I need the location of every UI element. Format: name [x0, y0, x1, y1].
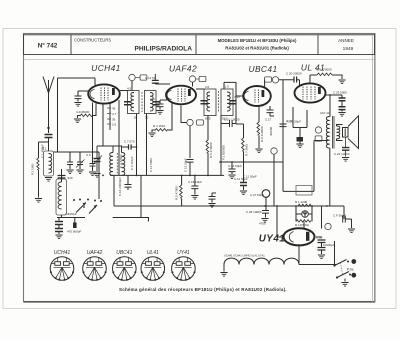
barretter lamp [302, 211, 309, 218]
svg-text:C.7 570: C.7 570 [124, 140, 135, 144]
tag box right of UBC41 label [265, 77, 272, 82]
OT primary coil [326, 117, 329, 149]
capacitor C7 padder [129, 144, 132, 149]
wire C29C30 joins [321, 243, 323, 255]
node C28 bus [264, 205, 266, 207]
switch arm 1 [76, 203, 86, 213]
svg-text:R.5 47000: R.5 47000 [175, 186, 179, 200]
trimmer cap T1 [67, 162, 73, 165]
svg-text:C.11 50pF: C.11 50pF [243, 175, 257, 179]
svg-text:UL41: UL41 [147, 250, 159, 256]
svg-text:1949: 1949 [343, 46, 354, 52]
svg-text:UCH41: UCH41 [91, 63, 120, 73]
ground T3 [89, 172, 96, 176]
wire UAF42 top stub [192, 82, 194, 86]
wire below C1 [48, 138, 50, 152]
ground T1 [66, 170, 73, 174]
ground C23 [338, 113, 345, 117]
capacitor C29 [318, 248, 326, 251]
svg-text:C.5: C.5 [86, 153, 91, 157]
MF1 primary coil [131, 93, 134, 111]
node MF1 bottom bus [136, 175, 138, 177]
wire C15 down [189, 162, 191, 175]
capacitor C2 top of L2 [58, 176, 66, 179]
coil L5 oscillator [110, 153, 113, 176]
svg-text:C.F 50pF: C.F 50pF [333, 214, 346, 218]
node R11 left [295, 205, 297, 207]
node UY41 plate bus [276, 205, 278, 207]
wire tag link [181, 118, 187, 123]
resistor R12 [296, 220, 311, 222]
node antenna junction [47, 127, 49, 129]
heater chain humps [224, 258, 299, 264]
base diagram UCH41 [50, 257, 74, 281]
wire UCH41 pin g down [109, 104, 111, 131]
node C18 top [194, 175, 196, 177]
tag circle AV [315, 127, 321, 133]
svg-text:C.19 50μF: C.19 50μF [287, 120, 301, 124]
switch arm upper [335, 260, 347, 266]
svg-text:58: 58 [134, 116, 138, 120]
wire R7 stubs [243, 124, 245, 183]
wire caps join [58, 225, 60, 235]
wire pot drop [220, 162, 222, 175]
tag circle below UAF42 [187, 119, 193, 125]
wire switch tap vertical [334, 241, 336, 266]
wire R5 stubs [181, 175, 183, 206]
svg-text:R.7 2MΩ: R.7 2MΩ [245, 143, 249, 156]
capacitor C30 [318, 240, 326, 243]
svg-text:A10 4Ω: A10 4Ω [320, 111, 331, 115]
MF1 secondary coil [150, 93, 153, 111]
coil L6 oscillator tickler [122, 153, 125, 176]
ground C11 [240, 191, 247, 195]
barretter filament [303, 211, 307, 217]
wire C28 stubs [265, 197, 268, 217]
wire speaker links [337, 125, 343, 141]
wire switch to bus [98, 152, 100, 199]
svg-text:R.4 1MΩ: R.4 1MΩ [153, 124, 166, 128]
svg-text:4.7: 4.7 [112, 112, 117, 116]
coil L2 oscillator [58, 182, 61, 209]
svg-text:UAF42: UAF42 [169, 64, 197, 74]
tube UCH41 [88, 84, 120, 103]
OT core lines [332, 116, 334, 149]
wire C11 stubs [243, 186, 245, 191]
tube UY41 [284, 228, 315, 245]
svg-text:C.16 20000pF: C.16 20000pF [118, 177, 122, 196]
svg-text:C.17: C.17 [265, 118, 272, 122]
card right border dark [374, 34, 376, 302]
svg-text:940: 940 [68, 176, 73, 180]
capacitor C28 [262, 211, 269, 214]
wire C14 stubs [231, 162, 233, 174]
capacitor C10 [230, 120, 233, 127]
wire L6 top stub [122, 147, 129, 153]
node R11 right [311, 205, 313, 207]
svg-text:R.8 410000: R.8 410000 [260, 126, 264, 142]
svg-text:N° 742: N° 742 [38, 42, 58, 50]
wire y162 link [219, 161, 283, 163]
tag circle right of UBC41 label [272, 77, 278, 83]
svg-text:3.6: 3.6 [205, 85, 210, 89]
wire UY41 right side [316, 236, 322, 238]
wire R6 down [207, 153, 209, 175]
svg-text:10000μF: 10000μF [323, 243, 335, 247]
MF2 anode feed wire [196, 88, 204, 90]
capacitor C24 [342, 148, 349, 151]
wire feedback loop [283, 141, 328, 192]
wire heater to UY41 [298, 246, 300, 265]
ground below C4 [55, 235, 62, 239]
tag box above UAF42 [199, 76, 206, 81]
ground heater [220, 273, 227, 277]
resistor R4 AGC [155, 129, 168, 132]
ground C28 [261, 219, 268, 223]
node osc grid [102, 175, 104, 177]
capacitor C23 lower [339, 107, 346, 110]
wire bus right end down [321, 206, 323, 229]
wire anode feed to OT [329, 95, 331, 117]
resistor R1 4.4/45000 [80, 114, 93, 117]
MF2 secondary box [221, 89, 233, 116]
svg-text:1.9: 1.9 [225, 85, 230, 89]
wire R4 left ground stub [152, 130, 155, 132]
svg-text:C.14 50pF: C.14 50pF [228, 164, 242, 168]
wire k-pin jog [113, 146, 122, 153]
svg-text:4700: 4700 [259, 222, 266, 226]
wire C26 stubs [212, 193, 216, 203]
capacitor C21 coupling [280, 124, 287, 127]
osc core dashes [116, 153, 118, 175]
capacitor C5 grid [75, 96, 82, 99]
wire T3 [92, 152, 94, 171]
tag circle K5 [129, 74, 135, 80]
capacitor C3 stack upper [55, 222, 63, 225]
wire C23 links [326, 95, 343, 112]
MF2 secondary coil [227, 92, 230, 111]
tag link above UAF42 [196, 78, 199, 80]
node R5 top [181, 175, 183, 177]
wire UCH41 pin k down [102, 104, 104, 147]
svg-text:UAF42: UAF42 [87, 250, 103, 256]
MF2 core dashes [218, 91, 220, 112]
MF2 primary coil [207, 92, 210, 111]
tube UBC41 [243, 86, 271, 106]
MF2 primary box [204, 89, 216, 116]
capacitor C8 MF1 left [124, 102, 131, 105]
node C15 bottom [189, 175, 191, 177]
wire R1 left to ground [78, 116, 81, 119]
switch arrow head 1 [83, 203, 86, 206]
pin voltage ticks [107, 108, 111, 124]
wire UL41 top [310, 75, 317, 83]
svg-text:Schéma général des récepteurs: Schéma général des récepteurs BF181U (Ph… [119, 287, 287, 292]
wire bus to CF [330, 206, 344, 219]
wire UAF42 anode down [180, 106, 182, 118]
wire UL41 cathode stubs [293, 107, 307, 137]
ground R9 [338, 80, 345, 84]
capacitor CF [343, 216, 346, 223]
speaker voice coil bar [344, 129, 346, 137]
base diagram UAF42 [83, 257, 107, 281]
svg-text:S.1: S.1 [42, 147, 47, 151]
tag circle 150 [271, 148, 277, 154]
node OT top [329, 94, 331, 96]
base diagram UL41 [141, 257, 165, 281]
svg-text:45: 45 [112, 107, 116, 111]
wire UY41 cathode up [303, 222, 305, 229]
svg-text:C.20 20000: C.20 20000 [286, 72, 302, 76]
wire UBC41 grid left [236, 96, 244, 124]
wire L-seg bottom left [113, 218, 149, 222]
wire UAF42 grid top [155, 74, 170, 84]
switch arrow head 2 [94, 205, 97, 208]
MF1 core dashes [141, 92, 143, 112]
wire C6 down [96, 162, 98, 173]
wire lower switch gnd stub [344, 279, 346, 282]
resistor R11 [298, 204, 311, 206]
svg-text:C.28 10000: C.28 10000 [246, 210, 262, 214]
coil L1 antenna [49, 154, 52, 173]
resistor R8 cathode [257, 122, 260, 135]
MF1 secondary box [145, 91, 157, 114]
wire CF links [345, 219, 351, 228]
svg-text:400/80: 400/80 [269, 126, 273, 136]
coil L2 box [56, 179, 67, 215]
wire x141 drop [140, 175, 142, 217]
capacitor C11 below bus [240, 183, 247, 186]
capacitor C17 [267, 110, 274, 113]
OT secondary coil [337, 126, 340, 139]
wire C16 stubs [127, 175, 129, 190]
ground below L1 [45, 178, 52, 182]
wire C7 out [131, 146, 136, 148]
coil L1 box [44, 151, 54, 176]
wire bus y206 left drop [113, 175, 115, 206]
capacitor C16 [125, 185, 132, 188]
svg-text:4.4/45000: 4.4/45000 [76, 110, 90, 114]
capacitor C15 [187, 160, 194, 163]
wire C22 links [279, 80, 300, 86]
wire R8 stubs [258, 106, 260, 148]
svg-text:4.5: 4.5 [127, 87, 132, 91]
svg-text:UCH41: UCH41 [54, 250, 71, 256]
tag circle above UAF42 [189, 76, 195, 82]
svg-text:C.9: C.9 [150, 97, 155, 101]
wire MF1 bottoms [137, 114, 147, 176]
wire UY41 plate down [277, 206, 284, 237]
wire L2 tops [61, 169, 63, 218]
ground C14 [228, 175, 235, 179]
svg-text:C.24 12000: C.24 12000 [334, 152, 350, 156]
svg-text:UBC41: UBC41 [249, 64, 278, 74]
band switch contact dots [73, 199, 102, 208]
node C7 junction [136, 146, 138, 148]
svg-text:C.27 50pF: C.27 50pF [250, 193, 264, 197]
trimmer cap T3 [90, 164, 96, 167]
ground C26 [208, 204, 215, 208]
svg-text:MODELES BF181U et BF183U (Phil: MODELES BF181U et BF183U (Philips) [218, 38, 297, 43]
svg-text:C.6 110pF: C.6 110pF [130, 156, 134, 170]
svg-text:CONSTRUCTEURS: CONSTRUCTEURS [74, 38, 111, 43]
ground C18 [191, 196, 198, 200]
ground CF [348, 229, 355, 233]
capacitor C18 [191, 186, 198, 189]
svg-text:RA81U02 et RA81U01 (Radiola): RA81U02 et RA81U01 (Radiola) [225, 46, 289, 51]
switch dots [333, 261, 351, 279]
ground below P3 [35, 199, 42, 203]
wire C19 gnd stub [299, 142, 301, 144]
wire C24 stub [345, 137, 347, 157]
svg-text:PHILIPS/RADIOLA: PHILIPS/RADIOLA [134, 46, 192, 53]
wire heater left to gnd [223, 265, 225, 272]
wire R4 right [168, 103, 172, 130]
svg-text:R.1 1200: R.1 1200 [295, 200, 308, 204]
wire MF2 sec right leg [220, 140, 222, 162]
ground C6 [93, 174, 100, 178]
wire UCH41 grid left down [92, 103, 94, 153]
svg-text:R.6 470000: R.6 470000 [209, 142, 213, 158]
capacitor C12 MF2 left [201, 101, 208, 104]
MF1 primary box [128, 91, 140, 114]
node C14 top [231, 161, 233, 163]
wire anode to tag [264, 80, 266, 87]
capacitor C26 [209, 197, 216, 200]
svg-text:UCH41 UCH41 UAF42 UL41 UY4: UCH41 UCH41 UAF42 UL41 UY41 [224, 254, 265, 258]
resistor R5 [180, 185, 183, 198]
wire heater right to switch [299, 264, 336, 266]
wire bus y175 [110, 174, 224, 176]
node OT bottom bus [326, 205, 328, 207]
speaker voice coil box [343, 128, 349, 138]
svg-text:C.23 5000: C.23 5000 [333, 91, 347, 95]
capacitor C4 stack lower [55, 229, 63, 232]
resistor R7 [242, 138, 245, 151]
wire branch to P3 [39, 142, 49, 158]
capacitor C9 MF1 right [153, 102, 160, 105]
svg-text:L.8/20pF: L.8/20pF [65, 212, 77, 216]
wire AVC long [171, 103, 173, 130]
wire tube right down [118, 100, 120, 175]
switch arm lower [337, 272, 349, 278]
header table [24, 35, 375, 55]
svg-text:C.13 5000: C.13 5000 [149, 158, 153, 172]
ground R4 [148, 133, 155, 137]
tube UL41 [295, 83, 326, 102]
wire C5 stubs [78, 91, 89, 102]
svg-text:R.9 470000: R.9 470000 [316, 68, 332, 72]
selector plate box [296, 186, 312, 196]
arrow C6 variable [93, 156, 103, 166]
MF2 top bus wire [224, 82, 236, 96]
wire R9 right to gnd [332, 75, 342, 79]
node pot top [220, 161, 222, 163]
plug pin lower [351, 273, 356, 278]
wire bus y152 [54, 151, 100, 153]
ground C24 [342, 158, 349, 162]
ground switch [341, 283, 348, 287]
wire C17 stubs [270, 106, 274, 116]
wire padder branch [97, 146, 113, 159]
wire C10 stubs [221, 123, 236, 125]
svg-text:6N5: 6N5 [205, 117, 211, 121]
ground R8 [255, 149, 262, 153]
wire OT bottom [329, 148, 331, 206]
svg-text:C.15 20pF: C.15 20pF [184, 158, 188, 172]
wire AF tap chain [189, 126, 191, 158]
tag box below UAF42 [197, 120, 204, 125]
wire T1 [69, 152, 71, 169]
tag circle 13A [325, 223, 331, 229]
wire C5f stub [74, 218, 76, 223]
tag circle on bus [262, 190, 270, 198]
capacitor C22 top coupling [294, 77, 297, 83]
svg-text:P.Se: P.Se [347, 268, 354, 272]
svg-text:39: 39 [112, 118, 116, 122]
tag box AV [315, 136, 322, 141]
tag link K5 [135, 77, 140, 79]
speaker cone [348, 116, 359, 149]
wire P3 to ground [38, 170, 40, 198]
svg-text:50: 50 [145, 116, 149, 120]
switch arm 2 [89, 205, 97, 214]
capacitor C14 [229, 169, 236, 172]
base diagram UY41 [171, 257, 195, 281]
ground below C5 [74, 103, 81, 107]
svg-text:R.12(50Ω): R.12(50Ω) [295, 223, 309, 227]
svg-text:C.4 470pF: C.4 470pF [119, 154, 123, 168]
svg-text:2.9: 2.9 [112, 123, 117, 127]
capacitor C19 block [297, 137, 304, 142]
svg-text:470 000pF: 470 000pF [67, 230, 82, 234]
wire x283 vertical [282, 80, 284, 162]
wire C18 stubs [194, 175, 196, 194]
lamp branch stubs [296, 206, 312, 222]
plug pin upper [351, 259, 356, 264]
node R6 bottom [207, 175, 209, 177]
resistor R6 detector load [206, 140, 209, 153]
ground below C10 [156, 111, 163, 115]
ground T2 [76, 170, 83, 174]
card border [24, 34, 376, 302]
capacitor C6 padder [94, 159, 101, 162]
svg-text:C.18 10pF: C.18 10pF [188, 180, 202, 184]
card bottom shadow line [24, 301, 376, 303]
svg-text:P.3 1MΩ: P.3 1MΩ [31, 163, 35, 175]
antenna [43, 77, 54, 94]
resistor R9 screen [317, 73, 332, 76]
tag box K5 [140, 75, 147, 80]
wire bus y206 [114, 205, 330, 207]
capacitor C12g [152, 80, 159, 83]
svg-text:UY41: UY41 [259, 234, 286, 245]
capacitor C13 MF2 right [230, 101, 237, 104]
svg-text:P.1 500000: P.1 500000 [222, 145, 226, 160]
ground below R1 [74, 119, 81, 123]
capacitor C23 upper [339, 98, 346, 101]
resistor P3 [37, 158, 39, 170]
svg-text:UY41: UY41 [177, 250, 190, 256]
wire MF2 bottoms [208, 116, 221, 141]
wire tuning top bus [58, 78, 96, 152]
wire C10 stub [160, 100, 167, 110]
capacitor C10 cathode [157, 104, 164, 107]
svg-text:ANNEE: ANNEE [338, 38, 354, 43]
wire R1 right [93, 104, 96, 116]
tube UAF42 [166, 86, 196, 105]
node heater switch [334, 264, 336, 266]
